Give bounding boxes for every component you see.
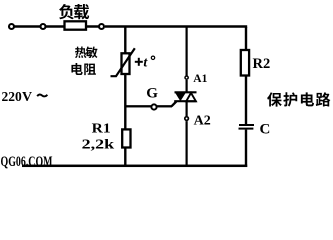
svg-text:2,2k: 2,2k	[82, 137, 115, 152]
svg-text:G: G	[146, 86, 158, 102]
svg-text:R1: R1	[92, 122, 111, 137]
svg-text:R2: R2	[253, 56, 271, 72]
svg-text:QG06.COM: QG06.COM	[1, 154, 53, 170]
svg-text:220: 220	[2, 89, 23, 104]
svg-text:V: V	[22, 90, 32, 105]
svg-text:C: C	[260, 122, 271, 138]
svg-text:A1: A1	[193, 73, 207, 85]
svg-text:A2: A2	[194, 114, 211, 129]
